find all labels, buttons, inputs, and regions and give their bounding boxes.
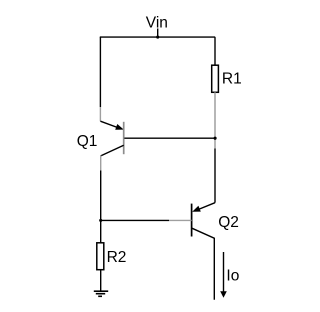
svg-text:Vin: Vin: [146, 15, 168, 32]
svg-text:Q2: Q2: [218, 214, 239, 231]
svg-text:R1: R1: [222, 70, 242, 87]
svg-text:Q1: Q1: [77, 133, 98, 150]
svg-text:R2: R2: [107, 249, 127, 266]
svg-text:Io: Io: [226, 268, 239, 285]
